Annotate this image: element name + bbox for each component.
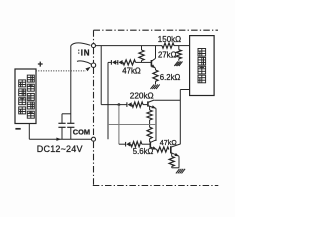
wire top rail IN to internal circuit box [96,45,190,47]
wire from device minus terminal [29,124,91,140]
wire gray interconnect horizontal [108,124,156,126]
diode D3 [127,102,132,107]
terminal IN lower [91,63,95,67]
label 220kΩ [130,92,154,101]
external device box (analog voltage output device) [15,69,36,124]
resistor 27k zigzag [176,46,181,61]
wire Q1 collector riser [155,46,157,59]
label 内部电路 [198,49,206,83]
svg-text:COM: COM [73,128,90,137]
svg-text:47kΩ: 47kΩ [122,66,141,75]
resistor R8 vertical (Q2 base-emitter) [147,106,152,127]
svg-text:220kΩ: 220kΩ [130,92,154,101]
arrowhead on dotted wire at IN terminal [85,67,90,72]
ground under 6.2k [151,84,160,89]
junction node dot [118,103,121,106]
resistor 47k (lower) zigzag [157,147,169,152]
label 模拟量电压 (right column) [27,75,34,118]
diode D1 [111,60,116,65]
terminal COM [92,137,96,141]
label 47kΩ (upper) [122,66,141,75]
wire 47k branch vertical from corner [107,62,109,139]
ground under Q4 [176,169,185,174]
wire Q4 emitter vertical [178,156,180,168]
resistor 220k zigzag [132,102,143,107]
svg-text:6.2kΩ: 6.2kΩ [160,73,181,82]
resistor R12 vertical (Q4 base-emitter) [169,153,179,167]
transistor Q1 [151,58,155,68]
wire Q2 collector to right rail [154,99,180,101]
diode D2 [118,60,123,65]
svg-text:150kΩ: 150kΩ [158,35,181,44]
wire 47k branch horizontal [108,61,151,63]
ground under 27k [174,61,182,66]
svg-text:IN: IN [81,48,90,57]
svg-text:27kΩ: 27kΩ [158,51,177,60]
dotted + wire from device to IN [36,70,86,72]
label 150kΩ [158,35,181,44]
module boundary dash-dot top edge [94,29,219,31]
wire 220k branch [101,104,147,106]
wire right rail (Q2/Q4 collectors) [179,90,181,145]
label 6.2kΩ [160,73,181,82]
capacitor C1 [58,123,65,139]
capacitor C2 [67,123,74,139]
label 27kΩ [158,51,177,60]
transistor Q3 [150,140,157,150]
label DC12~24V [37,144,83,154]
svg-text:+: + [38,59,43,69]
wire IN hook to external vertical [71,43,90,46]
svg-text:5.6kΩ: 5.6kΩ [133,147,154,156]
label COM [73,128,90,137]
label 47kΩ (lower) [160,138,178,147]
internal circuit box [190,36,215,96]
terminal IN upper [92,44,96,48]
resistor 150k zigzag [162,43,174,48]
jog wire to left capacitor [62,114,71,123]
arrowhead on COM wire [56,138,61,141]
wire gray drop 220k to 5.6k branch [118,105,120,145]
resistor 47k (upper) zigzag [123,60,136,65]
external vertical wire [70,46,72,124]
label IN [79,48,90,57]
label 5.6kΩ [133,147,154,156]
hook on lower IN terminal [77,61,91,64]
resistor R5 vertical (unlabeled) [139,46,144,63]
resistor R9 vertical [147,127,152,142]
resistor 5.6k zigzag [131,142,142,147]
label 输出设备 (left column) [19,80,26,114]
module boundary dash-dot left edge [93,30,95,185]
wire 5.6k branch [119,143,150,145]
wire drop from top rail to 220k branch [100,46,102,105]
plus polarity label [38,59,43,69]
resistor 6.2k zigzag [153,68,158,84]
transistor Q4 [171,144,181,156]
wire right rail into internal circuit box [180,89,189,91]
module boundary dash-dot bottom edge [93,185,219,187]
minus polarity label [15,128,20,130]
diode D4 [126,142,131,147]
transistor Q2 [148,100,156,108]
wire Q2 emitter vertical [155,108,157,141]
svg-text:DC12~24V: DC12~24V [37,144,83,154]
